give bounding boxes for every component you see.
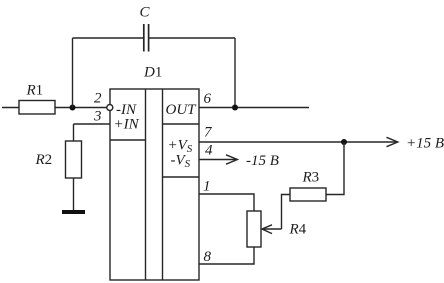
- wire +15V rail to R3: [326, 142, 344, 195]
- svg-text:C: C: [140, 5, 151, 21]
- wire R3 to wiper: [282, 195, 291, 230]
- pin 4 wire -Vs supply: [199, 143, 237, 165]
- pin label +Vs: [168, 138, 193, 156]
- pin 6 OUT wire: [199, 91, 309, 108]
- resistor R2: [35, 141, 82, 178]
- svg-text:8: 8: [204, 249, 212, 265]
- svg-text:R4: R4: [289, 222, 307, 238]
- pin 3 wire: [74, 109, 111, 125]
- svg-text:6: 6: [204, 91, 212, 107]
- potentiometer R4 body: [247, 211, 261, 247]
- svg-text:2: 2: [94, 91, 102, 107]
- svg-text:OUT: OUT: [166, 102, 198, 118]
- wire feedback left vertical: [72, 38, 74, 108]
- pin 1 wire: [199, 179, 254, 212]
- svg-text:7: 7: [204, 125, 213, 141]
- node junction inverting input: [70, 105, 76, 111]
- wiper arrow into R4: [262, 222, 307, 238]
- ground: [62, 210, 85, 214]
- svg-text:-15 В: -15 В: [246, 153, 279, 169]
- wire R2 to ground: [73, 178, 75, 211]
- pin label -Vs: [171, 153, 191, 171]
- svg-text:4: 4: [205, 143, 213, 159]
- svg-text:3: 3: [93, 109, 102, 125]
- svg-text:R2: R2: [35, 152, 53, 168]
- wire feedback top right: [149, 37, 235, 39]
- svg-text:R3: R3: [302, 170, 320, 186]
- pin 8 wire: [199, 247, 254, 265]
- resistor R3: [290, 170, 326, 202]
- svg-text:D1: D1: [143, 65, 162, 81]
- node junction output: [232, 105, 238, 111]
- node junction +15V rail: [341, 139, 347, 145]
- wire pin3 to R2: [73, 124, 75, 141]
- inverting input bubble pin 2: [94, 91, 113, 111]
- capacitor C: [140, 5, 151, 52]
- pin label OUT: [166, 102, 198, 118]
- wire input left: [2, 107, 19, 109]
- svg-text:1: 1: [203, 179, 211, 195]
- op-amp IC D1 body: [110, 65, 199, 281]
- svg-text:+IN: +IN: [114, 117, 140, 133]
- label -15 V: [246, 153, 279, 169]
- pin 7 wire +Vs supply: [199, 125, 398, 147]
- pin label +IN: [114, 117, 140, 133]
- pin label -IN: [116, 102, 137, 118]
- svg-text:+15 В: +15 В: [406, 136, 444, 152]
- wire feedback right vertical: [234, 38, 236, 108]
- label +15 V: [406, 136, 444, 152]
- svg-text:R1: R1: [26, 83, 44, 99]
- wire feedback top left: [73, 37, 144, 39]
- resistor R1: [19, 83, 55, 115]
- wire R1 to -IN: [55, 107, 107, 109]
